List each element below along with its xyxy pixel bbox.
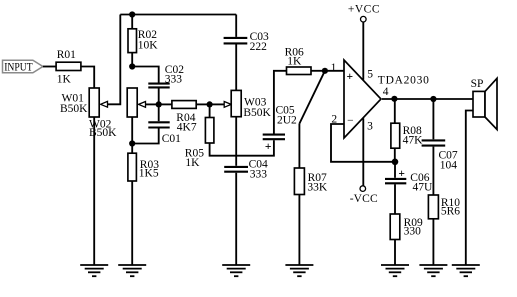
wire W03 bottom to C04 [235, 117, 237, 166]
capacitor C03 [224, 15, 269, 53]
svg-text:2U2: 2U2 [277, 115, 297, 127]
node pin1 [322, 68, 328, 74]
potentiometer W01 [60, 88, 108, 117]
resistor R10 [428, 195, 460, 219]
svg-text:C01: C01 [162, 133, 181, 145]
node feedback R08/C06/pin2 [392, 159, 399, 166]
op-amp U1 TDA2030 [344, 60, 430, 138]
speaker SP [471, 78, 497, 130]
svg-text:5: 5 [367, 68, 373, 80]
-VCC terminal [350, 186, 378, 205]
capacitor C07 [422, 99, 458, 172]
node R04 / R05 / W03 wiper [207, 101, 213, 107]
svg-text:B50K: B50K [60, 103, 88, 115]
capacitor C04 [224, 159, 268, 181]
wire W02 bottom to node [131, 117, 133, 144]
resistor R09 [390, 214, 423, 240]
resistor R05 [185, 104, 214, 169]
svg-text:B50K: B50K [89, 127, 117, 139]
ground under R03 [118, 265, 146, 276]
wire C07 to R10 [432, 147, 434, 195]
svg-text:222: 222 [250, 41, 268, 53]
+VCC terminal [348, 4, 380, 22]
svg-text:SP: SP [471, 78, 484, 90]
svg-text:10K: 10K [138, 40, 159, 52]
ground under R10 [419, 265, 447, 276]
potentiometer W03 [231, 90, 271, 118]
wire C01 bottom to W02 bottom node [132, 129, 159, 144]
wire output pin4 to speaker [382, 98, 473, 100]
svg-text:104: 104 [440, 160, 458, 172]
wire node to C02 top [132, 67, 159, 83]
resistor R03 [128, 144, 159, 182]
svg-text:1K5: 1K5 [139, 167, 159, 179]
svg-text:47K: 47K [403, 134, 424, 146]
svg-text:330: 330 [404, 226, 422, 238]
node output / C07 [430, 96, 436, 102]
capacitor C05 (electrolytic, + at bottom) [263, 105, 297, 153]
potentiometer W02 [89, 88, 146, 139]
wire pin5 to +VCC [362, 22, 364, 80]
svg-text:1K: 1K [185, 157, 200, 169]
svg-text:INPUT: INPUT [4, 62, 33, 74]
svg-text:-VCC: -VCC [350, 193, 378, 205]
ground under W01 [80, 265, 108, 276]
wire R05 bottom to C05 bottom [210, 140, 274, 156]
node pin4 / R08 [391, 96, 397, 102]
wire R03 to ground [131, 181, 133, 265]
svg-text:R01: R01 [57, 49, 76, 61]
wire top rail [120, 14, 236, 16]
capacitor C01 [148, 104, 181, 144]
svg-text:+: + [265, 141, 272, 153]
svg-text:333: 333 [250, 169, 267, 181]
wire C05 top to R06 [274, 71, 287, 134]
svg-text:1: 1 [331, 62, 337, 74]
svg-text:−: − [347, 115, 354, 127]
ground under C04 [222, 265, 250, 276]
svg-text:+: + [398, 168, 405, 180]
svg-text:47U: 47U [413, 182, 434, 194]
ground under R07 [285, 265, 313, 276]
wire INPUT to R01 [43, 66, 56, 68]
svg-text:B50K: B50K [243, 107, 271, 119]
svg-text:5R6: 5R6 [441, 206, 460, 218]
capacitor C06 (electrolytic, + at top) [385, 162, 433, 194]
wire C04 to ground [235, 173, 237, 265]
node R02 bottom / W02 top [129, 63, 135, 69]
wire R09 to ground [394, 240, 396, 266]
svg-text:4K7: 4K7 [177, 122, 197, 134]
resistor R01 [56, 49, 81, 86]
capacitor C02 [148, 64, 184, 88]
wire pin2 loop to feedback node [331, 124, 395, 162]
ground under speaker [452, 265, 480, 276]
wire speaker lower terminal to ground [466, 111, 473, 266]
resistor R06 [285, 46, 325, 74]
wire W01 wiper up to top rail [108, 15, 121, 105]
resistor R04 [159, 101, 210, 134]
wire diagonal pin1 node to R07 [299, 71, 325, 124]
svg-text:TDA2030: TDA2030 [378, 75, 430, 87]
svg-text:+VCC: +VCC [348, 4, 380, 16]
svg-text:33K: 33K [307, 182, 328, 194]
wire R07 to ground [298, 195, 300, 266]
svg-text:+: + [347, 71, 354, 83]
wire pin3 to -VCC [362, 118, 364, 186]
INPUT terminal flag [3, 60, 43, 73]
resistor R02 [128, 15, 158, 67]
wire R01 to W01 top [81, 67, 94, 89]
resistor R07 [294, 124, 328, 195]
wire C03 bottom to W03 top [235, 44, 237, 90]
wire W02 wiper to node [146, 103, 159, 105]
node W02 bottom / R03 [129, 140, 135, 146]
wire C02 bottom to wiper node [158, 88, 160, 104]
svg-text:1K: 1K [287, 55, 302, 67]
wire node to W03 wiper arrow [210, 103, 225, 105]
wire W01 bottom to ground [93, 117, 95, 265]
wire C06 to R09 [394, 184, 396, 214]
wire R10 to ground [432, 219, 434, 265]
svg-text:4: 4 [383, 86, 389, 98]
svg-text:1K: 1K [57, 74, 72, 86]
ground under R09 [381, 265, 409, 276]
node top rail / R02 [129, 11, 135, 17]
wire pin1 node to op-amp [325, 70, 344, 72]
svg-text:3: 3 [367, 121, 373, 133]
svg-text:333: 333 [165, 73, 183, 85]
resistor R08 [391, 99, 423, 162]
node wiper / C01 / C02 / R04 [156, 101, 162, 107]
